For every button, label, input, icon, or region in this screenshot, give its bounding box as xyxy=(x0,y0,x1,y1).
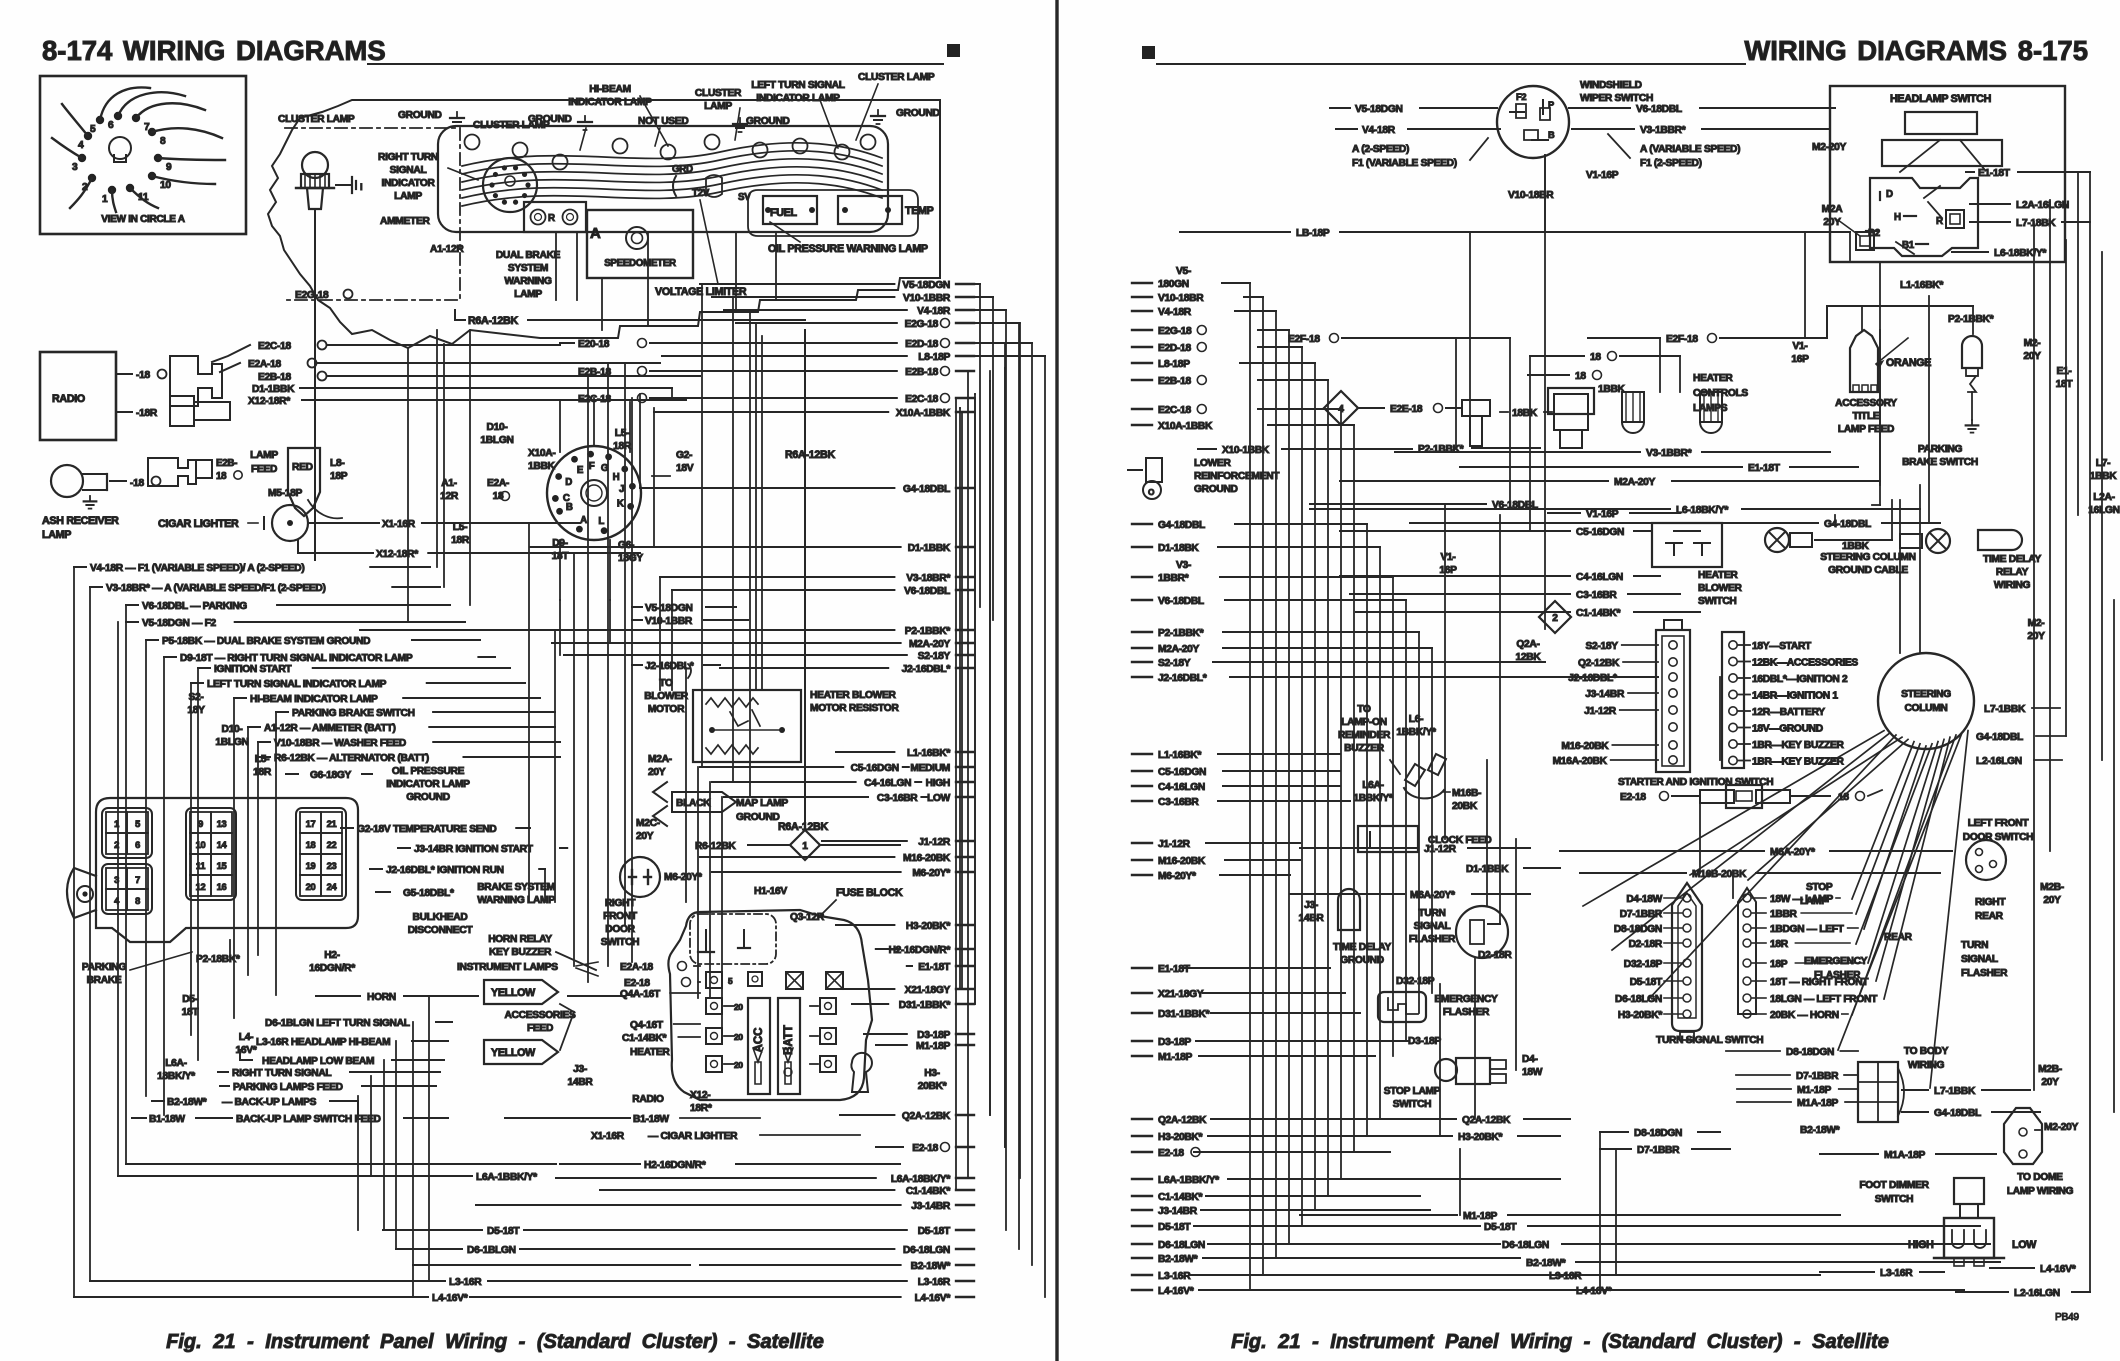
svg-text:V10-1BBR: V10-1BBR xyxy=(903,293,951,304)
svg-text:M6-20Y*: M6-20Y* xyxy=(912,868,950,879)
svg-text:C1-14BK*: C1-14BK* xyxy=(622,1033,666,1044)
svg-text:D6-18LGN: D6-18LGN xyxy=(903,1245,950,1256)
svg-text:D2-18R: D2-18R xyxy=(1478,950,1512,961)
svg-text:S2-: S2- xyxy=(188,692,203,703)
svg-text:BLACK: BLACK xyxy=(676,798,711,809)
svg-text:RADIO: RADIO xyxy=(52,393,85,405)
svg-text:D1-18BK: D1-18BK xyxy=(1158,543,1199,554)
svg-text:18: 18 xyxy=(306,840,316,850)
svg-text:E2G-18: E2G-18 xyxy=(1158,326,1192,337)
svg-text:SWITCH: SWITCH xyxy=(1393,1099,1432,1110)
svg-text:D3-18P: D3-18P xyxy=(1158,1037,1191,1048)
svg-text:PB49: PB49 xyxy=(2055,1312,2079,1323)
svg-text:V1-16P: V1-16P xyxy=(1586,509,1619,520)
svg-text:6: 6 xyxy=(135,840,140,850)
svg-text:D32-18P: D32-18P xyxy=(1396,976,1435,987)
svg-text:M5-18P: M5-18P xyxy=(268,488,302,499)
svg-text:L7-: L7- xyxy=(2096,458,2110,469)
svg-text:F: F xyxy=(589,461,595,472)
svg-text:HEADLAMP SWITCH: HEADLAMP SWITCH xyxy=(1890,93,1991,105)
svg-text:PARKING LAMPS FEED: PARKING LAMPS FEED xyxy=(233,1082,343,1093)
svg-text:HIGH: HIGH xyxy=(926,778,950,789)
svg-text:A: A xyxy=(580,515,587,526)
svg-text:D32-18P: D32-18P xyxy=(1624,959,1663,970)
svg-text:HEATER BLOWER: HEATER BLOWER xyxy=(810,690,897,701)
svg-text:BUZZER: BUZZER xyxy=(1344,743,1385,754)
svg-text:X12-18R*: X12-18R* xyxy=(248,396,290,407)
svg-text:18P: 18P xyxy=(330,471,348,482)
svg-text:18LGN — LEFT FRONT: 18LGN — LEFT FRONT xyxy=(1770,994,1878,1005)
svg-text:HI-BEAM: HI-BEAM xyxy=(589,84,631,95)
svg-text:23: 23 xyxy=(327,861,337,871)
svg-text:20Y: 20Y xyxy=(2023,351,2041,362)
svg-text:14BR: 14BR xyxy=(568,1077,594,1088)
svg-text:D6-18LGN: D6-18LGN xyxy=(1502,1240,1549,1251)
svg-text:O: O xyxy=(1148,487,1155,497)
svg-text:WIPER SWITCH: WIPER SWITCH xyxy=(1580,93,1653,104)
svg-text:L2A-16LGN: L2A-16LGN xyxy=(2016,200,2069,211)
svg-text:FLASHER: FLASHER xyxy=(1443,1007,1490,1018)
svg-text:20BK — HORN: 20BK — HORN xyxy=(1770,1010,1839,1021)
svg-text:SWITCH: SWITCH xyxy=(1698,596,1737,607)
svg-text:B2-18W*: B2-18W* xyxy=(1800,1125,1840,1136)
svg-text:V5-18DGN — F2: V5-18DGN — F2 xyxy=(142,618,217,629)
svg-text:D6-1BLGN: D6-1BLGN xyxy=(467,1245,516,1256)
svg-text:E1-18T: E1-18T xyxy=(1978,168,2011,179)
svg-text:REAR: REAR xyxy=(1884,932,1913,943)
svg-text:16: 16 xyxy=(217,882,227,892)
svg-text:M1A-18P: M1A-18P xyxy=(1884,1150,1926,1161)
svg-text:P2-1BBK*: P2-1BBK* xyxy=(1158,628,1204,639)
svg-text:C5-16DGN: C5-16DGN xyxy=(1576,527,1624,538)
svg-text:V1-: V1- xyxy=(1440,552,1455,563)
svg-text:SYSTEM: SYSTEM xyxy=(508,263,548,274)
svg-text:1: 1 xyxy=(102,194,108,205)
svg-text:B1-18W: B1-18W xyxy=(149,1114,185,1125)
svg-text:E2B-18: E2B-18 xyxy=(905,367,938,378)
svg-text:D10-: D10- xyxy=(487,422,508,433)
svg-text:M1-18P: M1-18P xyxy=(1463,1211,1497,1222)
svg-text:J3-14BR IGNITION START: J3-14BR IGNITION START xyxy=(414,844,534,855)
svg-text:R6A-12BK: R6A-12BK xyxy=(468,315,518,327)
svg-text:1: 1 xyxy=(802,841,808,852)
svg-text:V4-18R: V4-18R xyxy=(917,306,951,317)
svg-text:G2-18V TEMPERATURE SEND: G2-18V TEMPERATURE SEND xyxy=(357,824,496,835)
svg-text:LAMP: LAMP xyxy=(42,529,71,541)
svg-text:20Y: 20Y xyxy=(1823,217,1841,228)
svg-text:KEY BUZZER: KEY BUZZER xyxy=(489,947,552,958)
svg-text:M2B-: M2B- xyxy=(2038,1064,2062,1075)
svg-text:COLUMN: COLUMN xyxy=(1904,703,1947,714)
svg-text:16P: 16P xyxy=(1791,354,1809,365)
svg-text:B: B xyxy=(566,502,573,513)
svg-text:SIGNAL: SIGNAL xyxy=(1961,954,1998,965)
svg-text:J2-16DBL*: J2-16DBL* xyxy=(902,664,951,675)
svg-text:J3-14BR: J3-14BR xyxy=(1585,689,1625,700)
svg-text:— BACK-UP LAMPS: — BACK-UP LAMPS xyxy=(222,1097,317,1108)
svg-text:V5-: V5- xyxy=(1176,266,1191,277)
svg-text:FUEL: FUEL xyxy=(770,207,797,219)
svg-text:RED: RED xyxy=(292,462,313,473)
svg-text:M2-: M2- xyxy=(2024,338,2041,349)
svg-text:RIGHT TURN SIGNAL: RIGHT TURN SIGNAL xyxy=(232,1068,331,1079)
svg-text:16P: 16P xyxy=(1439,565,1457,576)
svg-text:X10A-1BBK: X10A-1BBK xyxy=(896,408,951,419)
svg-text:M16-20BK: M16-20BK xyxy=(1158,856,1206,867)
svg-text:E2B-18: E2B-18 xyxy=(578,367,611,378)
svg-text:SWITCH: SWITCH xyxy=(601,937,640,948)
svg-text:D4-: D4- xyxy=(1522,1054,1538,1065)
svg-text:E2D-18: E2D-18 xyxy=(905,339,938,350)
svg-text:PARKING: PARKING xyxy=(82,962,127,973)
svg-text:STEERING: STEERING xyxy=(1901,689,1951,700)
svg-text:20Y: 20Y xyxy=(2041,1077,2059,1088)
svg-text:1BBR*: 1BBR* xyxy=(1158,573,1189,584)
svg-text:H3-: H3- xyxy=(924,1068,940,1079)
svg-text:I: I xyxy=(360,182,362,192)
svg-text:V10-1BBR: V10-1BBR xyxy=(645,616,693,627)
svg-text:MAP LAMP: MAP LAMP xyxy=(736,798,788,809)
svg-text:J3-14BR: J3-14BR xyxy=(1158,1206,1198,1217)
svg-text:D: D xyxy=(1886,189,1893,200)
svg-text:V1-: V1- xyxy=(1792,341,1807,352)
svg-text:L6-18BK/Y*: L6-18BK/Y* xyxy=(1994,248,2046,259)
svg-text:STEERING COLUMN: STEERING COLUMN xyxy=(1820,552,1915,563)
svg-text:M6-20Y*: M6-20Y* xyxy=(1158,871,1196,882)
svg-text:S2-18Y: S2-18Y xyxy=(1158,658,1191,669)
svg-text:F2: F2 xyxy=(1516,92,1526,102)
svg-text:1BBK/Y*: 1BBK/Y* xyxy=(1396,727,1436,738)
svg-text:L: L xyxy=(598,516,604,527)
svg-text:E: E xyxy=(577,465,584,476)
svg-text:WARNING LAMP: WARNING LAMP xyxy=(477,895,555,906)
svg-text:M2B-: M2B- xyxy=(2040,882,2064,893)
svg-text:V5-18DGN: V5-18DGN xyxy=(1355,104,1403,115)
svg-text:E2A-: E2A- xyxy=(487,478,509,489)
svg-text:L6A-: L6A- xyxy=(165,1058,187,1069)
svg-text:INDICATOR LAMP: INDICATOR LAMP xyxy=(386,779,470,790)
svg-text:21: 21 xyxy=(327,819,337,829)
svg-text:B2-18W*: B2-18W* xyxy=(1158,1254,1198,1265)
svg-text:L6A-1BBK/Y*: L6A-1BBK/Y* xyxy=(476,1172,537,1183)
svg-text:18R: 18R xyxy=(613,441,632,452)
svg-text:X21-18GY: X21-18GY xyxy=(1158,989,1204,1000)
svg-text:L5-: L5- xyxy=(255,754,269,765)
svg-text:P2-1BBK*: P2-1BBK* xyxy=(1948,314,1994,325)
svg-text:HORN: HORN xyxy=(367,992,396,1003)
svg-text:E2C-18: E2C-18 xyxy=(905,394,938,405)
svg-text:18: 18 xyxy=(1575,371,1586,382)
svg-text:18R*: 18R* xyxy=(690,1103,712,1114)
svg-text:7: 7 xyxy=(144,122,150,133)
svg-text:P2-1BBK*: P2-1BBK* xyxy=(905,626,951,637)
svg-text:INSTRUMENT LAMPS: INSTRUMENT LAMPS xyxy=(457,962,558,973)
svg-text:A (2-SPEED): A (2-SPEED) xyxy=(1352,144,1409,155)
svg-text:M2-: M2- xyxy=(2028,618,2045,629)
svg-text:1BLGN: 1BLGN xyxy=(215,737,248,748)
svg-text:SPEEDOMETER: SPEEDOMETER xyxy=(604,258,676,269)
svg-text:LAMP FEED: LAMP FEED xyxy=(1838,424,1894,435)
svg-text:EMERGENCY: EMERGENCY xyxy=(1434,994,1498,1005)
svg-text:11: 11 xyxy=(138,192,149,203)
svg-text:18: 18 xyxy=(1590,352,1601,363)
svg-text:RADIO: RADIO xyxy=(632,1094,664,1105)
svg-text:-18R: -18R xyxy=(136,408,158,419)
svg-text:L1-16BK*: L1-16BK* xyxy=(1158,750,1201,761)
svg-text:LAMP: LAMP xyxy=(1800,896,1828,907)
svg-text:BULKHEAD: BULKHEAD xyxy=(413,912,468,923)
svg-text:E2C-18: E2C-18 xyxy=(1158,405,1191,416)
svg-text:24: 24 xyxy=(327,882,338,892)
svg-text:BLOWER: BLOWER xyxy=(644,691,689,702)
svg-text:4: 4 xyxy=(78,140,84,151)
svg-text:PARKING: PARKING xyxy=(1918,444,1963,455)
svg-text:16LGN: 16LGN xyxy=(2088,505,2119,516)
svg-text:E2B-: E2B- xyxy=(216,458,237,469)
svg-text:18T: 18T xyxy=(182,1007,200,1018)
svg-text:LEFT TURN SIGNAL INDICATOR: LEFT TURN SIGNAL INDICATOR LAMP xyxy=(207,679,387,690)
svg-text:18R: 18R xyxy=(1770,939,1789,950)
svg-text:BATT: BATT xyxy=(783,1025,795,1055)
svg-text:G4-18DBL: G4-18DBL xyxy=(903,484,950,495)
svg-text:LOW: LOW xyxy=(2012,1239,2037,1251)
svg-text:14BR—IGNITION 1: 14BR—IGNITION 1 xyxy=(1752,691,1838,702)
svg-text:IGNITION START: IGNITION START xyxy=(214,664,292,675)
svg-text:G4-18DBL: G4-18DBL xyxy=(1934,1108,1981,1119)
svg-text:ACCESSORY: ACCESSORY xyxy=(1835,398,1897,409)
svg-text:C1-14BK*: C1-14BK* xyxy=(1576,608,1620,619)
svg-text:STARTER AND IGNITION SWITCH: STARTER AND IGNITION SWITCH xyxy=(1618,777,1773,788)
svg-text:LB-18P: LB-18P xyxy=(1296,228,1330,239)
svg-text:D8-18DGN: D8-18DGN xyxy=(1634,1128,1682,1139)
svg-text:E2C-18: E2C-18 xyxy=(258,341,291,352)
svg-text:5: 5 xyxy=(728,976,733,986)
svg-text:D1-1BBK: D1-1BBK xyxy=(252,384,295,395)
svg-text:7: 7 xyxy=(135,875,140,885)
svg-text:18P: 18P xyxy=(1770,959,1788,970)
svg-text:YELLOW: YELLOW xyxy=(491,987,536,999)
svg-text:WIRING: WIRING xyxy=(1994,580,2031,591)
svg-text:13: 13 xyxy=(217,819,227,829)
svg-text:D5-18T: D5-18T xyxy=(1630,977,1663,988)
svg-text:G4-18DBL: G4-18DBL xyxy=(1824,519,1871,530)
svg-text:B1-18W: B1-18W xyxy=(633,1114,669,1125)
svg-text:C1-14BK*: C1-14BK* xyxy=(906,1186,950,1197)
svg-text:WARNING: WARNING xyxy=(504,276,552,287)
svg-text:V4-18R: V4-18R xyxy=(1362,125,1396,136)
svg-text:C3-16BR: C3-16BR xyxy=(1158,797,1199,808)
svg-text:X12-: X12- xyxy=(690,1090,710,1101)
svg-text:AMMETER: AMMETER xyxy=(380,216,430,227)
svg-text:-18: -18 xyxy=(136,370,150,381)
svg-text:LAMP: LAMP xyxy=(394,191,422,202)
svg-text:18V—GROUND: 18V—GROUND xyxy=(1752,724,1823,735)
svg-text:D6-18LGN: D6-18LGN xyxy=(1158,1240,1205,1251)
svg-text:Q2A-12BK: Q2A-12BK xyxy=(1462,1115,1511,1126)
svg-text:L7-1BBK: L7-1BBK xyxy=(1934,1086,1976,1097)
svg-text:L4-16V*: L4-16V* xyxy=(2040,1264,2076,1275)
svg-text:12BK—ACCESSORIES: 12BK—ACCESSORIES xyxy=(1752,658,1858,669)
svg-text:ASH RECEIVER: ASH RECEIVER xyxy=(42,515,119,527)
svg-text:Q2-12BK: Q2-12BK xyxy=(1578,658,1620,669)
svg-text:1: 1 xyxy=(114,819,119,829)
svg-text:8: 8 xyxy=(135,896,140,906)
svg-text:G5-18DBL*: G5-18DBL* xyxy=(403,888,454,899)
svg-text:20: 20 xyxy=(734,1060,743,1070)
svg-text:LAMP: LAMP xyxy=(704,101,732,112)
svg-text:HI-BEAM INDICATOR LAMP: HI-BEAM INDICATOR LAMP xyxy=(250,694,378,705)
svg-text:H3-20BK*: H3-20BK* xyxy=(1618,1010,1662,1021)
svg-text:L2-16LGN: L2-16LGN xyxy=(2014,1288,2060,1299)
svg-text:FLASHER: FLASHER xyxy=(1814,970,1861,981)
svg-text:H3-20BK*: H3-20BK* xyxy=(1158,1132,1202,1143)
svg-text:L2-16LGN: L2-16LGN xyxy=(1976,756,2022,767)
svg-text:V6-18DBL: V6-18DBL xyxy=(1158,596,1204,607)
svg-text:J3-14BR: J3-14BR xyxy=(911,1201,951,1212)
svg-text:D4-18W: D4-18W xyxy=(1626,894,1662,905)
svg-text:RELAY: RELAY xyxy=(1996,567,2029,578)
svg-text:J2-16DBL*: J2-16DBL* xyxy=(1158,673,1207,684)
svg-text:INDICATOR LAMP: INDICATOR LAMP xyxy=(756,93,840,104)
svg-text:A (VARIABLE SPEED): A (VARIABLE SPEED) xyxy=(1640,144,1740,155)
svg-text:D6-1BLGN LEFT TURN SIGNAL: D6-1BLGN LEFT TURN SIGNAL xyxy=(265,1018,410,1029)
svg-text:VIEW IN CIRCLE A: VIEW IN CIRCLE A xyxy=(101,214,184,225)
svg-text:BRAKE: BRAKE xyxy=(87,975,122,986)
svg-text:MOTOR: MOTOR xyxy=(648,704,685,715)
svg-text:GROUND: GROUND xyxy=(528,114,572,125)
svg-text:18: 18 xyxy=(216,471,227,482)
svg-text:18Y: 18Y xyxy=(187,705,205,716)
svg-text:L7-1BBK: L7-1BBK xyxy=(1984,704,2026,715)
svg-text:12R—BATTERY: 12R—BATTERY xyxy=(1752,707,1825,718)
svg-text:M16-20BK: M16-20BK xyxy=(903,853,951,864)
svg-text:M16-20BK: M16-20BK xyxy=(1561,741,1609,752)
svg-text:M16A-20BK: M16A-20BK xyxy=(1553,756,1608,767)
svg-text:INDICATOR LAMP: INDICATOR LAMP xyxy=(568,97,652,108)
svg-text:WIRING DIAGRAMS 8-175: WIRING DIAGRAMS 8-175 xyxy=(1744,35,2088,66)
svg-text:Fig. 21 - Instrument Panel Wir: Fig. 21 - Instrument Panel Wiring - (Sta… xyxy=(166,1331,824,1353)
svg-text:TO: TO xyxy=(659,678,673,689)
svg-text:E2F-18: E2F-18 xyxy=(1666,334,1698,345)
svg-text:5: 5 xyxy=(90,124,96,135)
svg-text:20BK: 20BK xyxy=(1452,801,1478,812)
svg-text:M1-18P: M1-18P xyxy=(1797,1085,1831,1096)
svg-text:16DBL*—IGNITION 2: 16DBL*—IGNITION 2 xyxy=(1752,674,1848,685)
svg-text:FEED: FEED xyxy=(527,1023,553,1034)
svg-text:20Y: 20Y xyxy=(648,767,666,778)
svg-text:20Y: 20Y xyxy=(2027,631,2045,642)
svg-text:HEATER: HEATER xyxy=(630,1047,670,1058)
svg-text:M2A-20Y: M2A-20Y xyxy=(1614,477,1656,488)
svg-text:C4-16LGN: C4-16LGN xyxy=(1576,572,1623,583)
svg-text:DOOR: DOOR xyxy=(605,924,635,935)
svg-text:FEED: FEED xyxy=(251,464,277,475)
svg-text:SWITCH: SWITCH xyxy=(1875,1194,1914,1205)
svg-text:18BK: 18BK xyxy=(1512,408,1538,419)
svg-text:HORN RELAY: HORN RELAY xyxy=(488,934,552,945)
svg-text:L3-16R: L3-16R xyxy=(449,1277,482,1288)
svg-text:H3-20BK*: H3-20BK* xyxy=(1458,1132,1502,1143)
svg-text:L4-: L4- xyxy=(239,1032,253,1043)
svg-text:8-174 WIRING DIAGRAMS: 8-174 WIRING DIAGRAMS xyxy=(42,35,386,66)
svg-text:D8-18DGN: D8-18DGN xyxy=(1786,1047,1834,1058)
svg-text:F1 (2-SPEED): F1 (2-SPEED) xyxy=(1640,158,1702,169)
svg-text:X21-18GY: X21-18GY xyxy=(905,985,951,996)
svg-text:M2-20Y: M2-20Y xyxy=(2044,1122,2078,1133)
svg-text:GROUND: GROUND xyxy=(398,110,442,121)
svg-text:D5-18T: D5-18T xyxy=(1484,1222,1517,1233)
svg-text:RIGHT: RIGHT xyxy=(1975,897,2006,908)
svg-text:J3-: J3- xyxy=(573,1064,587,1075)
svg-text:EMERGENCY: EMERGENCY xyxy=(1804,956,1868,967)
svg-text:M6-20Y*: M6-20Y* xyxy=(664,872,702,883)
svg-text:V6-18DBL — PARKING: V6-18DBL — PARKING xyxy=(142,601,247,612)
svg-text:3: 3 xyxy=(72,162,78,173)
svg-text:GROUND: GROUND xyxy=(746,116,790,127)
svg-text:V6-18DBL: V6-18DBL xyxy=(1636,104,1682,115)
svg-text:S2-18Y: S2-18Y xyxy=(918,651,951,662)
svg-text:E1-18T: E1-18T xyxy=(918,962,951,973)
svg-text:1BR—KEY BUZZER: 1BR—KEY BUZZER xyxy=(1752,740,1844,751)
svg-text:2: 2 xyxy=(1552,613,1558,624)
svg-text:V10-18BR — WASHER FEED: V10-18BR — WASHER FEED xyxy=(274,738,406,749)
svg-text:H2-: H2- xyxy=(324,950,340,961)
svg-text:9: 9 xyxy=(166,162,172,173)
svg-text:M1A-18P: M1A-18P xyxy=(1797,1098,1839,1109)
svg-text:E2-18: E2-18 xyxy=(624,978,650,989)
svg-text:TITLE: TITLE xyxy=(1853,411,1880,422)
svg-text:18R: 18R xyxy=(451,535,470,546)
svg-text:GROUND: GROUND xyxy=(1194,484,1238,495)
svg-text:E2D-18: E2D-18 xyxy=(1158,343,1191,354)
svg-text:CONTROLS: CONTROLS xyxy=(1693,388,1748,399)
svg-text:1BBR: 1BBR xyxy=(1770,909,1798,920)
svg-text:V3-: V3- xyxy=(1176,560,1191,571)
svg-text:22: 22 xyxy=(327,840,337,850)
svg-text:9: 9 xyxy=(198,819,203,829)
svg-text:LOWER: LOWER xyxy=(1194,458,1231,469)
svg-text:M2A-20Y: M2A-20Y xyxy=(909,639,951,650)
svg-text:LAMP WIRING: LAMP WIRING xyxy=(2007,1186,2074,1197)
svg-text:1BDGN — LEFT: 1BDGN — LEFT xyxy=(1770,924,1845,935)
svg-text:D7-1BBR: D7-1BBR xyxy=(1796,1071,1839,1082)
svg-text:STOP LAMP: STOP LAMP xyxy=(1384,1086,1441,1097)
svg-text:10: 10 xyxy=(196,840,206,850)
svg-text:WINDSHIELD: WINDSHIELD xyxy=(1580,80,1642,91)
svg-text:G6-18GY: G6-18GY xyxy=(310,770,352,781)
svg-text:D9-18T — RIGHT TURN SIGNA: D9-18T — RIGHT TURN SIGNAL INDICATOR LAM… xyxy=(180,653,413,664)
svg-text:TO: TO xyxy=(1357,704,1371,715)
svg-text:E2-18: E2-18 xyxy=(1620,792,1646,803)
svg-text:19: 19 xyxy=(306,861,316,871)
svg-text:1BBK: 1BBK xyxy=(2090,471,2118,482)
svg-text:M16B-: M16B- xyxy=(1452,788,1481,799)
svg-text:HEATER: HEATER xyxy=(1698,570,1738,581)
svg-text:R6-12BK: R6-12BK xyxy=(695,841,736,852)
svg-text:LAMPS: LAMPS xyxy=(1693,403,1728,414)
svg-text:SIGNAL: SIGNAL xyxy=(390,165,427,176)
svg-text:M2A-: M2A- xyxy=(648,754,672,765)
svg-text:E2F-18: E2F-18 xyxy=(1288,334,1320,345)
svg-text:L3-16R: L3-16R xyxy=(1880,1268,1913,1279)
svg-text:X10A-: X10A- xyxy=(528,448,555,459)
svg-text:L3-16R: L3-16R xyxy=(1549,1271,1582,1282)
svg-text:HEATER: HEATER xyxy=(1693,373,1733,384)
svg-text:DUAL BRAKE: DUAL BRAKE xyxy=(496,250,561,261)
svg-text:B2-18W*: B2-18W* xyxy=(911,1261,951,1272)
svg-text:D31-1BBK*: D31-1BBK* xyxy=(1158,1009,1210,1020)
svg-text:Q3-12R: Q3-12R xyxy=(790,912,825,923)
